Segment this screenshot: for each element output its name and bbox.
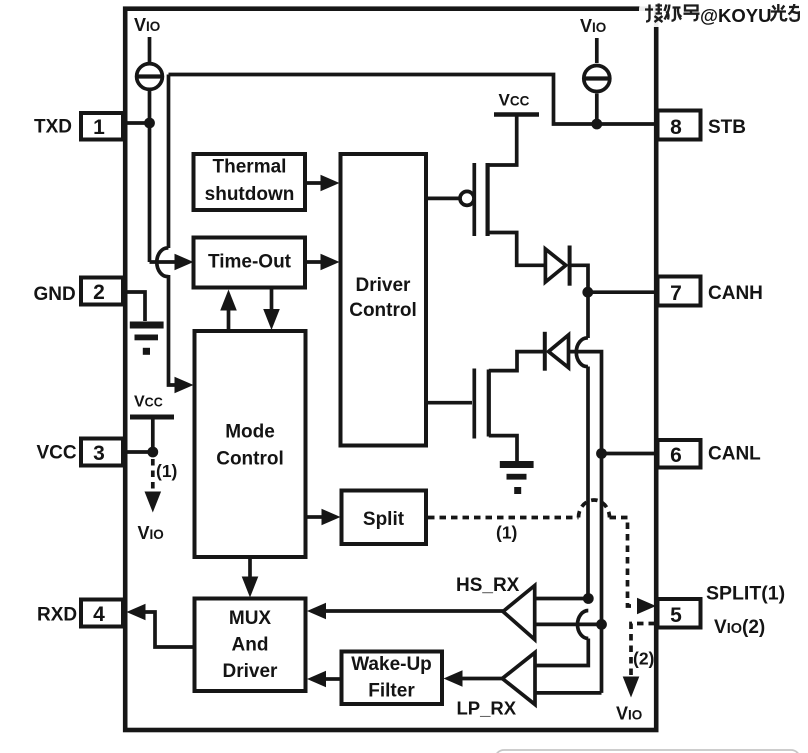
ground symbol at Q2 : bar3 <box>514 487 521 494</box>
wire CANL to pin 6 <box>602 452 657 456</box>
svg-text:shutdown: shutdown <box>205 184 295 205</box>
wire CANH vertical upper <box>586 292 590 338</box>
ground symbol at GND pin : bar1 <box>130 322 164 329</box>
bottom UI rounded rect <box>495 750 800 753</box>
node hop arc on CANH vertical at D2 wire <box>576 338 588 367</box>
pin 2 GND box <box>81 278 123 305</box>
svg-text:(1): (1) <box>496 523 517 543</box>
pin 1 TXD box <box>81 113 123 140</box>
wire STB internal vertical lower to Mode Control <box>169 275 178 385</box>
diode D1 cathode bar <box>568 246 572 286</box>
svg-text:SPLIT(1): SPLIT(1) <box>706 583 785 605</box>
block Thermal shutdown <box>194 154 306 210</box>
ground symbol at GND pin : bar2 <box>135 335 159 341</box>
wire TXD pin stub <box>123 121 150 125</box>
dashed hop arc over vertical lines <box>579 500 610 518</box>
pin 6 CANL box <box>658 440 701 468</box>
svg-text:VIO(2): VIO(2) <box>714 617 765 638</box>
pin 5 SPLIT box <box>658 599 701 628</box>
wire HS_RX top input <box>535 597 589 601</box>
wire into Time-Out <box>150 260 178 264</box>
transistor Q1 PMOS : gate bar <box>472 163 476 236</box>
diode D2 (from CANL) triangle <box>549 335 569 368</box>
arrowhead into MUX from HS_RX <box>307 603 326 620</box>
svg-text:VIO: VIO <box>134 15 160 35</box>
svg-text:1: 1 <box>93 116 105 139</box>
junction dot CANH <box>582 287 593 298</box>
wire D2 to CANL vertical <box>569 352 602 693</box>
current source I2 wire to junction <box>595 94 599 125</box>
block Time-Out <box>194 238 306 288</box>
wire D1 to CANH junction <box>570 265 588 292</box>
junction dot STB/VIO2 <box>591 119 602 130</box>
svg-text:TXD: TXD <box>34 117 72 138</box>
svg-text:@KOYU: @KOYU <box>700 5 772 26</box>
svg-text:CANL: CANL <box>708 444 761 465</box>
transistor Q1 PMOS : channel bar <box>486 163 490 236</box>
wire HS_RX output to MUX <box>326 609 503 613</box>
svg-text:6: 6 <box>670 444 682 467</box>
transistor Q2 NMOS : gate bar <box>472 369 476 439</box>
node hop arc on CANH vertical at HS_RX bottom input <box>577 611 588 639</box>
arrowhead into Wake-Up Filter <box>444 670 463 687</box>
transistor Q2 NMOS : channel bar <box>487 370 491 437</box>
pin 4 RXD box <box>81 600 123 627</box>
current source I2 circle <box>584 66 610 92</box>
svg-text:VCC: VCC <box>499 91 530 110</box>
junction dot VCC <box>147 447 158 458</box>
wire Driver Control to Q2 gate <box>426 401 472 405</box>
svg-text:VIO: VIO <box>580 16 606 36</box>
svg-text:VIO: VIO <box>138 523 164 543</box>
arrowhead into Mode Control <box>175 377 194 394</box>
block MUX And Driver <box>195 599 306 692</box>
svg-text:8: 8 <box>670 116 682 139</box>
current source I2 bar <box>584 76 610 80</box>
svg-text:7: 7 <box>670 282 682 305</box>
arrowhead down to VIO (2) <box>623 677 640 698</box>
watermark text 搜狐号@KOYU光与 <box>645 4 799 26</box>
svg-text:(2): (2) <box>633 649 654 669</box>
transistor Q1 PMOS : gate bubble <box>460 191 474 205</box>
comparator LP_RX triangle <box>502 653 535 705</box>
svg-text:Time-Out: Time-Out <box>208 252 292 273</box>
arrowhead into pin 5 <box>637 598 656 615</box>
junction dot TXD/VIO <box>144 118 155 129</box>
transistor Q2 NMOS : drain wire up <box>489 352 546 371</box>
block Mode Control <box>195 331 306 557</box>
pin 8 STB box <box>658 111 701 140</box>
wire Driver Control to Q1 gate <box>426 197 460 201</box>
current source I2 wire from label <box>595 38 599 63</box>
svg-text:Split: Split <box>363 509 405 530</box>
wire VCC pin stub <box>123 450 153 454</box>
arrowhead into Time-Out <box>175 254 194 271</box>
svg-text:Mode: Mode <box>225 422 275 443</box>
comparator HS_RX triangle <box>503 586 535 640</box>
junction dot HS_RX top input <box>583 593 594 604</box>
svg-text:VCC: VCC <box>37 443 77 464</box>
block Wake-Up Filter <box>342 652 443 705</box>
node hop arc on STB vertical at Time-Out wire <box>157 248 169 277</box>
svg-text:4: 4 <box>93 603 105 626</box>
wire TXD net: source to junction to Time-Out row <box>148 91 152 262</box>
arrowhead down to VIO <box>145 492 162 513</box>
wire CANH vertical to LP_RX <box>535 639 588 666</box>
dashed wire pin 5 to VIO (2) <box>631 624 655 680</box>
svg-text:STB: STB <box>708 117 746 138</box>
wire GND pin to ground <box>123 292 145 321</box>
svg-text:Driver: Driver <box>223 661 279 682</box>
wire STB internal vertical upper <box>167 75 171 249</box>
watermark halo <box>639 1 803 27</box>
transistor Q1 PMOS : source wire to VCC <box>488 115 517 166</box>
svg-text:Thermal: Thermal <box>213 157 287 178</box>
arrow Time-Out to Mode Control (down) <box>270 288 274 310</box>
transistor Q2 NMOS : source wire down <box>489 436 517 461</box>
wire Wake-Up Filter to MUX <box>326 677 341 681</box>
svg-text:(1): (1) <box>156 461 177 481</box>
svg-text:3: 3 <box>93 442 105 465</box>
block Driver Control <box>341 154 427 446</box>
svg-text:HS_RX: HS_RX <box>456 575 520 596</box>
VCC rail wire down <box>151 417 155 452</box>
diode D2 cathode bar <box>543 332 547 371</box>
wire CANH vertical mid <box>586 367 590 599</box>
svg-text:Driver: Driver <box>356 275 412 296</box>
diode D1 (to CANH) triangle <box>545 249 565 282</box>
arrow Mode Control to MUX (down) <box>248 557 252 577</box>
wire LP_RX bottom input <box>535 691 602 695</box>
arrow Mode Control to Time-Out (up) <box>227 309 231 331</box>
dashed wire VCC to VIO (1) <box>151 459 155 492</box>
svg-text:LP_RX: LP_RX <box>457 698 517 719</box>
svg-text:Wake-Up: Wake-Up <box>351 654 432 675</box>
VCC rail at pin 3 : bar <box>130 415 174 420</box>
svg-text:Filter: Filter <box>368 681 415 702</box>
svg-text:2: 2 <box>93 281 105 304</box>
transistor Q1 PMOS : drain wire down <box>488 233 546 266</box>
block Split <box>342 491 427 545</box>
wire CANH to pin 7 <box>588 290 656 294</box>
ground symbol at Q2 : bar1 <box>500 461 534 468</box>
svg-text:And: And <box>232 635 269 656</box>
svg-text:CANH: CANH <box>708 283 763 304</box>
VCC rail at PMOS : bar <box>494 112 539 117</box>
current source I1 bar <box>137 74 163 78</box>
pin 3 VCC box <box>81 439 123 466</box>
IC outline box <box>125 9 656 730</box>
current source I1 circle <box>137 64 163 90</box>
svg-text:VIO: VIO <box>616 704 642 724</box>
pin 7 CANH box <box>658 277 701 306</box>
arrow Thermal shutdown to Driver Control <box>305 181 322 185</box>
svg-text:RXD: RXD <box>37 605 77 626</box>
arrow Mode Control to Split <box>306 515 322 519</box>
dashed wire Split net : right run and down <box>610 518 635 607</box>
current source I1 wire from label <box>148 37 152 62</box>
ground symbol at GND pin : bar3 <box>143 348 150 355</box>
svg-text:GND: GND <box>34 284 76 305</box>
ground symbol at Q2 : bar2 <box>507 474 527 480</box>
arrowhead into RXD pin <box>127 604 146 621</box>
svg-text:VCC: VCC <box>134 394 163 411</box>
wire STB internal top run <box>169 75 657 125</box>
wire RXD from MUX <box>144 612 194 647</box>
svg-text:Control: Control <box>349 300 417 321</box>
dashed wire Split to SPLIT pin : left run <box>428 516 579 520</box>
junction dot CANL <box>596 448 607 459</box>
arrowhead into MUX from Wake-Up Filter <box>307 671 326 688</box>
wire LP_RX output to Wake-Up Filter <box>461 677 502 681</box>
arrow Time-Out to Driver Control <box>305 260 322 264</box>
svg-text:MUX: MUX <box>229 608 272 629</box>
svg-text:Control: Control <box>216 449 284 470</box>
svg-text:5: 5 <box>670 604 682 627</box>
wire HS_RX bottom input <box>535 623 602 627</box>
junction dot HS_RX bottom input <box>596 619 607 630</box>
